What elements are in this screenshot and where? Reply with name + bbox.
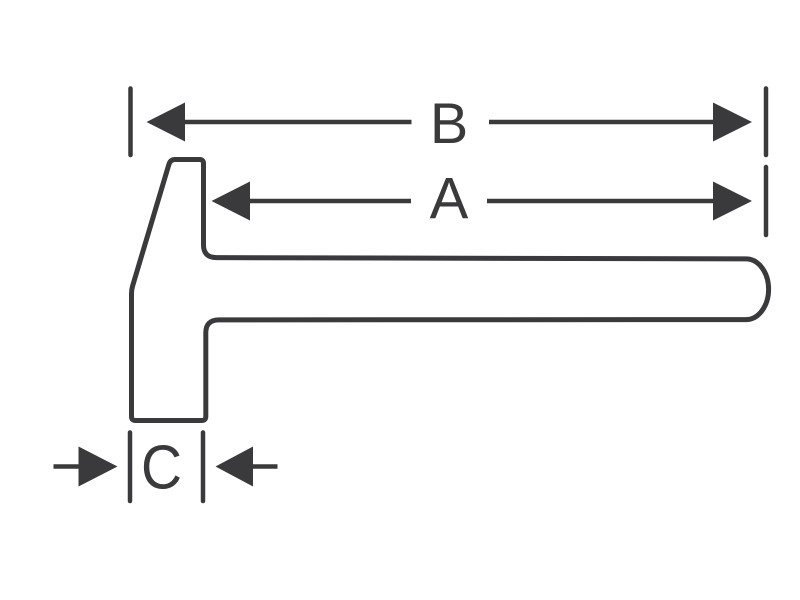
svg-text:A: A	[430, 167, 469, 232]
svg-text:B: B	[430, 92, 468, 156]
svg-text:C: C	[141, 433, 182, 503]
